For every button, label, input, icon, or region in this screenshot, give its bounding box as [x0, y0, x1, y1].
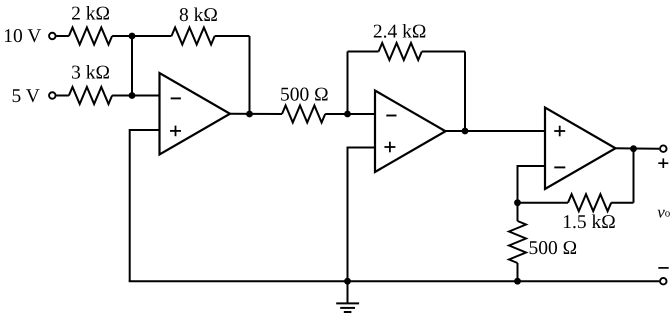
svg-text:vo: vo [657, 203, 671, 222]
svg-text:10 V: 10 V [3, 26, 41, 47]
svg-text:2 kΩ: 2 kΩ [71, 4, 110, 25]
svg-text:1.5 kΩ: 1.5 kΩ [562, 212, 616, 233]
svg-text:8 kΩ: 8 kΩ [179, 5, 218, 26]
svg-text:2.4 kΩ: 2.4 kΩ [373, 22, 427, 43]
svg-text:3 kΩ: 3 kΩ [71, 63, 110, 84]
svg-text:500 Ω: 500 Ω [280, 85, 329, 106]
svg-text:5 V: 5 V [11, 86, 39, 107]
svg-text:500 Ω: 500 Ω [528, 238, 577, 259]
